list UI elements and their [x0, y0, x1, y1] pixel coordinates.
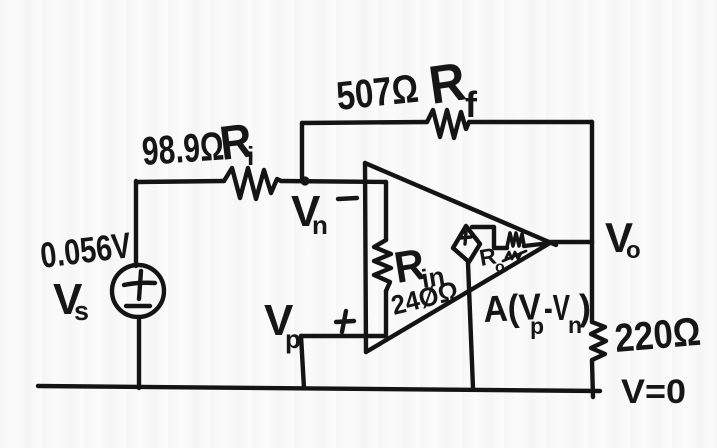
svg-text:): )	[579, 287, 591, 328]
svg-text:i: i	[247, 141, 254, 171]
svg-text:o: o	[626, 237, 641, 264]
svg-text:o: o	[495, 259, 505, 276]
svg-text:R: R	[425, 51, 469, 115]
svg-text:0.056V: 0.056V	[38, 224, 133, 276]
svg-text:s: s	[74, 296, 89, 326]
svg-text:p: p	[285, 324, 301, 354]
svg-text:98.9Ω: 98.9Ω	[141, 124, 226, 174]
svg-text:220Ω: 220Ω	[613, 310, 703, 361]
svg-text:V=0: V=0	[621, 373, 686, 411]
svg-text:p: p	[530, 313, 544, 339]
svg-text:f: f	[465, 84, 478, 125]
svg-text:n: n	[312, 210, 328, 240]
svg-text:507Ω: 507Ω	[334, 67, 420, 119]
svg-text:-V: -V	[544, 287, 570, 328]
